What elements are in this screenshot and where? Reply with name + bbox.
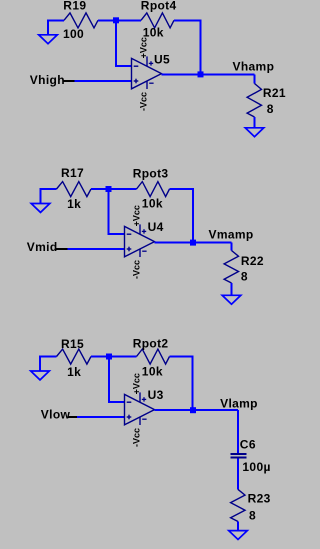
svg-text:+Vcc: +Vcc: [132, 205, 142, 226]
svg-text:-Vcc: -Vcc: [132, 428, 142, 447]
input pin dash: [56, 248, 68, 250]
svg-text:Rpot2: Rpot2: [133, 336, 169, 350]
wire potentiometer to output node (top + right drop): [174, 19, 201, 74]
potentiometer Rpot2: [137, 349, 170, 364]
resistor R23 (load): [231, 489, 245, 521]
wire input to non-inverting input: [67, 248, 124, 250]
svg-text:8: 8: [249, 508, 256, 522]
svg-text:Vhamp: Vhamp: [233, 60, 275, 74]
output junction (circuit 2): [190, 240, 196, 246]
op-amp U5: [132, 56, 162, 89]
wire R21 to ground: [254, 117, 256, 128]
svg-text:U5: U5: [154, 52, 170, 66]
wire ground to resistor: [47, 19, 64, 21]
resistor R19: [64, 13, 98, 28]
resistor R17: [57, 182, 92, 197]
svg-text:10k: 10k: [142, 197, 163, 211]
wire R22 to ground: [231, 283, 233, 295]
wire output to load resistor R21: [201, 74, 255, 83]
svg-text:R15: R15: [61, 337, 84, 351]
ground (load, circuit 3): [229, 530, 248, 539]
svg-text:10k: 10k: [142, 364, 163, 378]
svg-text:100: 100: [63, 27, 84, 41]
op-amp U4: [125, 224, 155, 257]
svg-text:U4: U4: [148, 220, 164, 234]
svg-text:8: 8: [241, 270, 248, 284]
ground (load, circuit 2): [222, 295, 241, 304]
ground (input side, circuit 1): [39, 20, 58, 43]
wire node to potentiometer: [109, 356, 137, 358]
wire resistor to node: [91, 356, 109, 358]
svg-text:Vmid: Vmid: [27, 240, 58, 254]
svg-text:1k: 1k: [67, 197, 81, 211]
wire ground to resistor: [39, 356, 57, 358]
svg-text:+Vcc: +Vcc: [132, 373, 142, 394]
svg-text:R23: R23: [248, 491, 271, 505]
svg-text:R22: R22: [241, 254, 264, 268]
potentiometer Rpot3: [137, 182, 170, 197]
wire node to potentiometer: [116, 19, 141, 21]
svg-text:R21: R21: [263, 86, 286, 100]
node junction (feedback tap, circuit 2): [106, 186, 112, 192]
output wire: [155, 409, 194, 411]
svg-text:8: 8: [267, 102, 274, 116]
ground (load, circuit 1): [245, 127, 264, 136]
potentiometer Rpot4: [141, 13, 174, 28]
wire R23 to ground: [237, 522, 239, 531]
wire input to non-inverting input: [77, 416, 125, 418]
svg-text:-Vcc: -Vcc: [132, 260, 142, 279]
svg-text:Vmamp: Vmamp: [209, 227, 254, 241]
output junction (circuit 1): [198, 71, 204, 77]
svg-text:U3: U3: [148, 388, 164, 402]
svg-text:Rpot3: Rpot3: [133, 166, 169, 180]
input pin dash: [63, 80, 75, 82]
wire potentiometer to output node (top + right drop): [170, 356, 193, 411]
resistor R15: [57, 349, 92, 364]
op-amp U3: [125, 392, 155, 425]
wire output to capacitor C6: [193, 410, 238, 453]
ground (input side, circuit 2): [31, 189, 50, 212]
output wire: [155, 242, 194, 244]
svg-text:Vlow: Vlow: [41, 408, 71, 422]
feedback wire to inverting input: [115, 20, 132, 66]
output wire: [162, 73, 201, 75]
input pin dash: [68, 416, 77, 418]
wire capacitor to R23: [237, 458, 239, 489]
svg-text:Vhigh: Vhigh: [30, 73, 65, 87]
feedback wire to inverting input: [108, 357, 125, 403]
wire input to non-inverting input: [74, 80, 131, 82]
wire node to potentiometer: [109, 188, 137, 190]
svg-text:Vlamp: Vlamp: [220, 397, 258, 411]
node junction (feedback tap, circuit 1): [113, 17, 119, 23]
wire ground to resistor: [40, 188, 57, 190]
wire resistor to node: [98, 19, 116, 21]
resistor R22 (load): [224, 251, 238, 284]
svg-text:100µ: 100µ: [242, 460, 270, 474]
svg-text:-Vcc: -Vcc: [139, 92, 149, 111]
wire potentiometer to output node (top + right drop): [170, 188, 194, 243]
svg-text:1k: 1k: [67, 365, 81, 379]
svg-text:Rpot4: Rpot4: [141, 0, 177, 13]
capacitor C6: [231, 454, 247, 458]
svg-text:+Vcc: +Vcc: [139, 37, 149, 58]
wire output to load resistor R22: [193, 243, 232, 251]
svg-text:C6: C6: [240, 438, 256, 452]
svg-text:R17: R17: [61, 166, 84, 180]
feedback wire to inverting input: [108, 189, 125, 234]
resistor R21 (load): [247, 84, 261, 118]
node junction (feedback tap, circuit 3): [106, 354, 112, 360]
ground (input side, circuit 3): [31, 357, 50, 380]
output junction (circuit 3): [190, 407, 196, 413]
wire resistor to node: [91, 188, 109, 190]
svg-text:R19: R19: [63, 0, 86, 13]
